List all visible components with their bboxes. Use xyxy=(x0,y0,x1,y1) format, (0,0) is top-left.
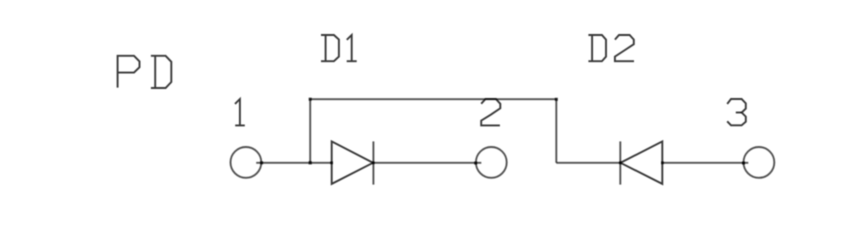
D1 cathode junction dot xyxy=(372,161,375,164)
wire D2 anode to pin3 xyxy=(662,162,748,164)
pin number 1 xyxy=(235,99,245,125)
wire D1 cathode to pin2 xyxy=(373,162,481,164)
corner dot top-left xyxy=(309,98,312,101)
pin number 2 xyxy=(481,99,500,125)
pin endpoint dot 1 xyxy=(260,161,263,164)
D1 anode junction dot xyxy=(330,161,333,164)
wire vertical stub at junction xyxy=(309,99,311,163)
wire drop to D2 cathode xyxy=(556,162,620,164)
D2 anode junction dot xyxy=(661,161,664,164)
terminal pin 1 xyxy=(231,147,262,178)
junction dot at stub xyxy=(309,161,312,164)
terminal pin 3 xyxy=(744,147,775,178)
diode D1 xyxy=(332,141,374,184)
terminal pin 2 xyxy=(476,147,507,178)
pin endpoint dot 2 xyxy=(474,162,477,165)
part name PD xyxy=(118,56,172,88)
diode D2 xyxy=(620,141,662,184)
pin endpoint dot 3 xyxy=(742,162,745,165)
wire right vertical drop xyxy=(555,99,557,163)
wire top bypass xyxy=(310,98,556,100)
wire pin1 to D1 anode xyxy=(256,162,332,164)
D2 cathode junction dot xyxy=(619,161,622,164)
label D1 xyxy=(321,35,357,61)
label D2 xyxy=(588,35,634,61)
pin number 3 xyxy=(727,99,746,125)
corner dot top-right xyxy=(555,98,558,101)
